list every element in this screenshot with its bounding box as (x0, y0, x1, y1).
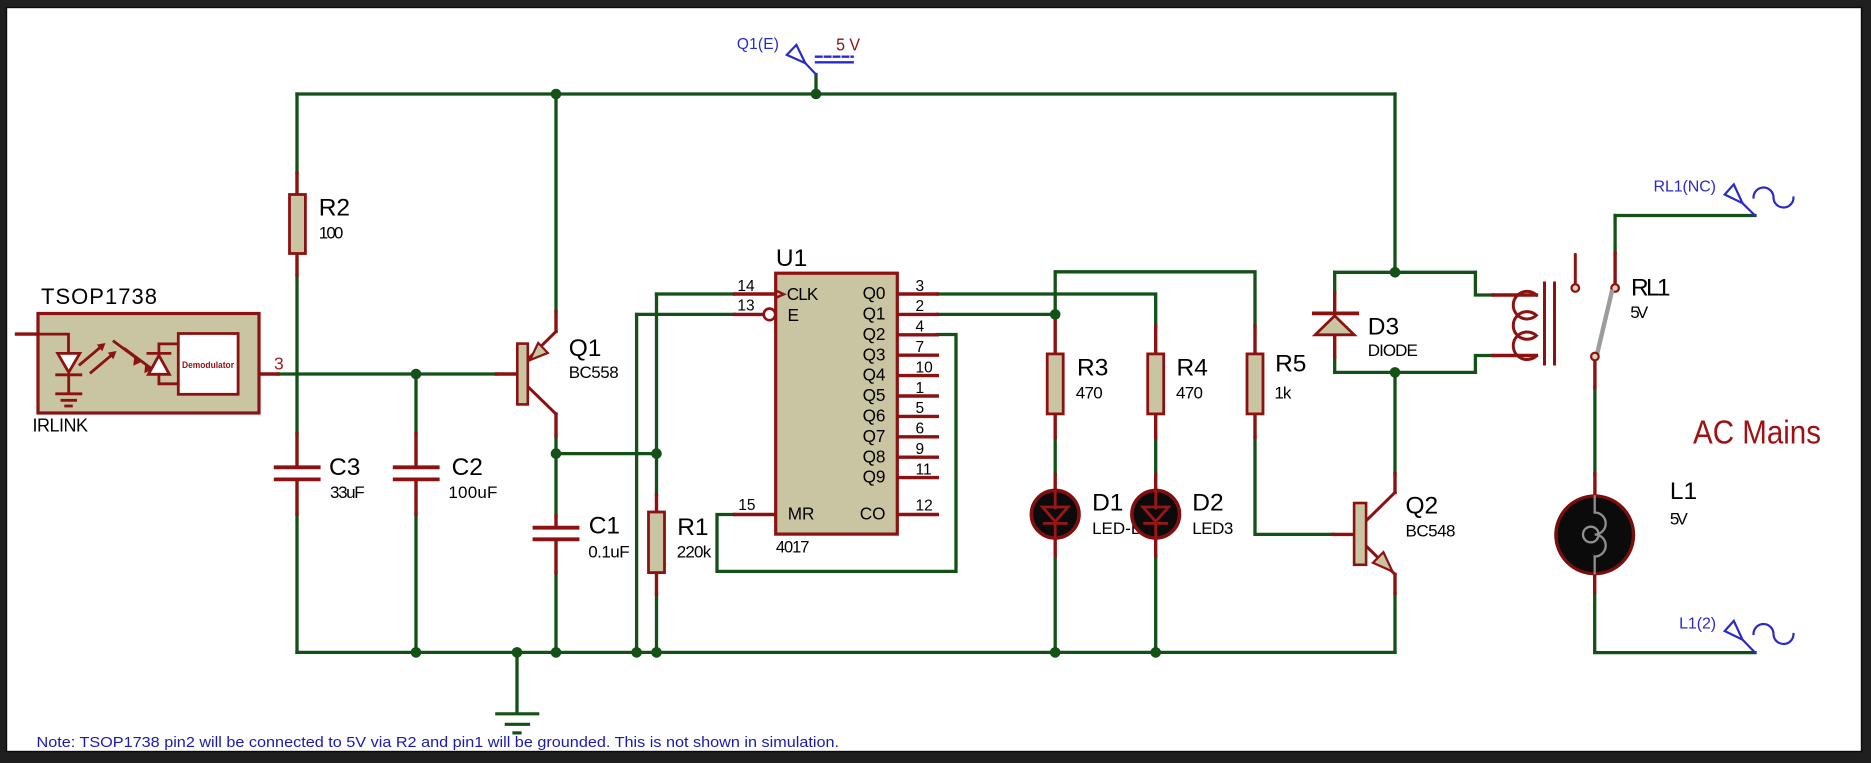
lead R4 top (1154, 326, 1157, 354)
lead R3 bottom (1053, 414, 1056, 438)
wire CLK net horizontal (657, 292, 735, 295)
resistor R5 (1247, 354, 1263, 414)
lead U1 Q9 stub (897, 476, 937, 479)
wire coil top corner (1475, 272, 1493, 295)
svg-text:5V: 5V (1670, 510, 1689, 529)
svg-text:R5: R5 (1275, 351, 1306, 378)
node pin3 / C2 (411, 369, 422, 380)
svg-text:C2: C2 (452, 454, 483, 481)
lead C3 bottom (295, 481, 298, 514)
lead relay NC contact (1613, 254, 1616, 285)
internal ground (57, 392, 81, 395)
capacitor C1 (535, 528, 578, 540)
lead C1 bottom (554, 541, 557, 573)
lead R2 top (295, 173, 298, 194)
lead R1 top (655, 495, 658, 512)
wire CLK net vertical to R1 (655, 294, 658, 495)
transistor Q2 (BC548 NPN) (1354, 493, 1395, 575)
svg-text:11: 11 (916, 461, 932, 478)
wire Q1 emitter to rail (554, 94, 557, 312)
wire TSOP pin3 to Q1 base (278, 372, 496, 375)
lead R1 bottom (655, 573, 658, 594)
wire D3 bottom rail (1335, 371, 1476, 374)
wire C3 bottom to ground rail (295, 514, 298, 652)
lead U1 Q2 stub (897, 333, 937, 336)
lead U1 Q4 stub (897, 374, 937, 377)
wire node up over to R5 (1055, 272, 1255, 326)
node rail E net (631, 647, 642, 658)
svg-text:3: 3 (916, 278, 925, 295)
LED D1 (1031, 490, 1079, 538)
svg-text:Q7: Q7 (863, 426, 886, 446)
lead R4 bottom (1154, 414, 1157, 438)
wire D3 top rail (1335, 271, 1476, 274)
svg-text:RL1: RL1 (1631, 274, 1671, 301)
lead R2 bottom (295, 254, 298, 276)
lead C2 top (414, 434, 417, 466)
wire Q0 to R4 (937, 294, 1155, 326)
svg-text:MR: MR (788, 504, 815, 524)
clock triangle pin14 (777, 291, 784, 298)
capacitor C3 (276, 467, 319, 479)
lead D2 bottom (1154, 537, 1157, 556)
TSOP1738 module (38, 314, 259, 414)
svg-text:13: 13 (737, 298, 754, 315)
resistor R3 (1047, 354, 1063, 414)
lead Q2 collector vert (1393, 474, 1396, 493)
svg-text:R4: R4 (1177, 355, 1208, 382)
wire RL1(NC) terminal wire (1615, 214, 1755, 217)
IC U1 4017 (764, 273, 898, 534)
wire R3 to D1 (1054, 438, 1057, 475)
svg-text:1k: 1k (1274, 383, 1292, 402)
wire Q2 emitter down (1393, 593, 1396, 652)
lead D3 bottom (1333, 335, 1336, 357)
svg-text:E: E (788, 305, 799, 325)
svg-text:Q1: Q1 (569, 335, 602, 362)
lead U1 Q8 stub (897, 456, 937, 459)
wire relay NC vertical (1613, 216, 1616, 254)
lead D3 top (1333, 293, 1336, 313)
svg-text:Q0: Q0 (863, 283, 886, 303)
svg-text:14: 14 (737, 278, 755, 295)
internal pin1 routing (38, 334, 69, 353)
reception arrows (114, 342, 139, 361)
wire D3 upper lead green (1333, 272, 1336, 293)
svg-text:100uF: 100uF (448, 483, 497, 502)
svg-text:4017: 4017 (776, 539, 810, 557)
wire ground stub (515, 652, 518, 713)
svg-text:5V: 5V (1630, 303, 1649, 322)
svg-text:5 V: 5 V (836, 34, 860, 54)
node D3 bottom (1390, 367, 1401, 378)
lead coil top (1493, 293, 1536, 296)
RED LEADS (17, 173, 1616, 594)
lamp L1 (1556, 496, 1634, 574)
lead U1 Q5 stub (897, 394, 937, 397)
svg-text:15: 15 (738, 497, 755, 514)
svg-text:D3: D3 (1368, 314, 1399, 341)
lead C2 bottom (414, 481, 417, 514)
wire C1 top (554, 454, 557, 516)
svg-text:AC Mains: AC Mains (1693, 413, 1821, 450)
svg-text:4: 4 (916, 319, 925, 336)
wire C2 top tap (414, 374, 417, 434)
svg-text:2: 2 (916, 298, 925, 315)
wire E net horizontal (637, 313, 735, 316)
lead R5 bottom (1253, 414, 1256, 438)
power terminal 5V bar (816, 57, 853, 63)
svg-text:3: 3 (274, 354, 284, 374)
emission arrows (80, 346, 103, 365)
svg-text:IRLINK: IRLINK (33, 415, 89, 435)
svg-text:Q9: Q9 (863, 467, 886, 487)
lead C3 top (295, 434, 298, 466)
svg-text:100: 100 (319, 223, 344, 242)
terminal Q1(E) (787, 45, 816, 75)
lead lamp top (1593, 474, 1596, 496)
lead C1 top (554, 516, 557, 526)
svg-text:Q6: Q6 (863, 406, 886, 426)
svg-text:10: 10 (916, 359, 934, 376)
lead Q2 emitter vert (1393, 574, 1396, 593)
wire Q1 collector node (554, 436, 557, 454)
svg-text:470: 470 (1176, 383, 1203, 402)
svg-text:7: 7 (916, 339, 925, 356)
svg-text:U1: U1 (776, 245, 807, 272)
transistor Q1 (BC558 PNP) (517, 332, 556, 415)
wire coil bottom corner (1475, 356, 1493, 373)
svg-text:Q4: Q4 (863, 365, 886, 385)
node top rail / power terminal (811, 89, 822, 100)
lead Q1 emitter vert (554, 414, 557, 436)
wire power terminal stub (814, 75, 817, 95)
node top rail / Q1 collector (551, 89, 562, 100)
wire node A horizontal (556, 452, 657, 455)
node A right / R1 (651, 448, 662, 459)
svg-text:L1: L1 (1670, 478, 1697, 505)
IR LED diode (58, 353, 80, 372)
svg-text:Q2: Q2 (1406, 493, 1439, 520)
wire E net vertical (635, 314, 638, 652)
lead D2 top (1154, 475, 1157, 493)
lead D1 bottom (1053, 537, 1056, 556)
svg-text:Q8: Q8 (863, 446, 886, 466)
diode D3 (1314, 313, 1357, 334)
pin numbers (274, 278, 933, 515)
svg-text:R3: R3 (1077, 355, 1108, 382)
resistor R4 (1148, 354, 1164, 414)
svg-text:Q2: Q2 (863, 324, 886, 344)
terminal RL1(NC) (1725, 184, 1794, 215)
terminal L1(2) (1725, 621, 1794, 653)
lead U1 E stub (735, 313, 764, 316)
svg-text:TSOP1738: TSOP1738 (41, 284, 157, 309)
lead U1 Q7 stub (897, 435, 937, 438)
demodulator block (178, 334, 238, 395)
lead D1 top (1053, 475, 1056, 493)
node D3 top (1390, 267, 1401, 278)
svg-text:BC548: BC548 (1406, 521, 1456, 540)
lead U1 Q3 stub (897, 354, 937, 357)
capacitor C2 (395, 467, 438, 479)
LED D2 (drawn after D1 value text, covers it) (1132, 490, 1180, 538)
node rail R1 (651, 647, 662, 658)
resistor R2 (290, 195, 306, 254)
svg-text:Note: TSOP1738 pin2 will be co: Note: TSOP1738 pin2 will be connected to… (37, 734, 840, 751)
svg-text:C3: C3 (329, 454, 360, 481)
lead U1 Q1 stub (897, 313, 937, 316)
wire D3 lower lead green (1333, 357, 1336, 372)
relay contacts (1572, 254, 1619, 360)
lead U1 CLK stub (735, 292, 776, 295)
svg-text:0.1uF: 0.1uF (588, 543, 629, 562)
svg-text:DIODE: DIODE (1368, 341, 1418, 360)
svg-text:Q1(E): Q1(E) (737, 36, 779, 53)
blue net labels (737, 36, 1716, 633)
armature (1598, 292, 1612, 353)
svg-text:D1: D1 (1092, 490, 1123, 517)
lead Q1 base stub (496, 372, 517, 375)
lead relay pole down (1593, 360, 1596, 387)
lead TSOP input left (17, 332, 39, 335)
svg-text:Demodulator: Demodulator (182, 360, 234, 370)
relay RL1 coil (1513, 283, 1554, 364)
lead U1 CO stub (897, 513, 937, 516)
node rail ground (512, 647, 523, 658)
lead TSOP output pin3 (238, 372, 278, 375)
svg-text:5: 5 (916, 400, 925, 417)
ground symbol (497, 714, 538, 733)
svg-text:1: 1 (916, 380, 925, 397)
svg-text:C1: C1 (589, 512, 620, 539)
svg-text:33uF: 33uF (330, 483, 365, 502)
wire R4 to D2 (1154, 438, 1157, 475)
lead lamp bottom (1593, 574, 1596, 593)
svg-text:6: 6 (916, 421, 925, 438)
lead Q2 base stub (1333, 533, 1354, 536)
svg-text:LED3: LED3 (1192, 519, 1233, 538)
wire top 5V rail (297, 92, 1395, 95)
lead Q1 collector vert (554, 312, 557, 332)
svg-text:CLK: CLK (787, 284, 819, 304)
wire D1 to rail (1054, 556, 1057, 652)
arrowheads (97, 343, 153, 373)
node rail C2 (411, 647, 422, 658)
wire R2 bottom to C3 (295, 275, 298, 434)
svg-text:R1: R1 (677, 514, 708, 541)
svg-text:BC558: BC558 (569, 363, 619, 382)
wire bottom ground rail (297, 651, 1395, 654)
svg-text:CO: CO (860, 504, 886, 524)
relay core bars (1543, 283, 1546, 364)
lead U1 Q0 stub (897, 292, 937, 295)
lead U1 MR stub (735, 513, 776, 516)
svg-text:220k: 220k (677, 542, 712, 561)
svg-text:RL1(NC): RL1(NC) (1654, 178, 1717, 195)
svg-text:R2: R2 (319, 195, 350, 222)
wire R2 top (295, 94, 298, 173)
node rail D2 (1150, 647, 1161, 658)
resistor R1 (649, 512, 665, 573)
wire Q2 collector up (1393, 372, 1396, 473)
E bubble pin13 (764, 309, 776, 321)
svg-text:9: 9 (916, 441, 925, 458)
wire D2 to rail (1154, 556, 1157, 652)
wire R1 bottom (655, 594, 658, 652)
svg-text:Q1: Q1 (863, 304, 886, 324)
lead coil bottom (1493, 354, 1536, 357)
wire MR net (717, 335, 956, 572)
photodiode (148, 352, 170, 355)
svg-text:Q5: Q5 (863, 385, 886, 405)
wire R5 to Q2 base (1255, 438, 1333, 535)
wire C2 bottom (414, 514, 417, 652)
node Q1out / R3 (1050, 309, 1061, 320)
node rail C1 (551, 647, 562, 658)
wire lamp bottom to L1(2) terminal (1595, 593, 1755, 653)
svg-text:12: 12 (916, 498, 933, 515)
svg-text:L1(2): L1(2) (1679, 616, 1716, 633)
lead U1 Q6 stub (897, 415, 937, 418)
lead R5 top (1253, 326, 1256, 354)
node A left (551, 448, 562, 459)
svg-text:470: 470 (1076, 383, 1103, 402)
lead R3 top (1053, 318, 1056, 354)
wire Q1out to R3 node (937, 313, 1055, 316)
node rail D1 (1050, 647, 1061, 658)
svg-text:D2: D2 (1192, 490, 1223, 517)
wire C1 bottom (554, 573, 557, 653)
svg-text:Q3: Q3 (863, 344, 886, 364)
wire rail down to D3/relay (1393, 94, 1396, 272)
wire switch pole to lamp (1593, 388, 1596, 474)
IC U1 pin names (787, 283, 886, 523)
